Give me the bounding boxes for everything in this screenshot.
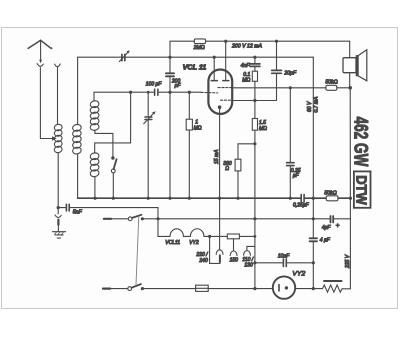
socket 110/130 (244, 246, 255, 255)
switch gang link (136, 216, 139, 284)
svg-text:462 GW: 462 GW (350, 117, 371, 167)
heater VY2 (190, 229, 204, 237)
svg-text:50kΩ: 50kΩ (324, 190, 336, 196)
value 1MOhm (194, 120, 202, 132)
wire pin to ground (57, 225, 59, 232)
svg-text:VY2: VY2 (189, 240, 199, 246)
speaker LS (343, 41, 367, 88)
fuse F1 (196, 285, 209, 291)
resistor R4 1.5MOhm (252, 119, 257, 219)
value 380 Ohm (223, 161, 232, 172)
screen wire from U1 (232, 87, 326, 89)
svg-text:0,25µF: 0,25µF (293, 203, 310, 209)
bottom mains wire (142, 288, 195, 290)
ground jack cup (55, 215, 61, 217)
U1 cathode (218, 105, 222, 198)
label 60V 0.7mA (307, 96, 319, 113)
plug pin bar (219, 255, 221, 262)
U1 grid g2 dashes (218, 87, 232, 89)
wire L4 bottom to bus (94, 177, 96, 199)
svg-text:225 V: 225 V (345, 254, 351, 269)
capacitor 200pF (166, 57, 174, 198)
svg-text:5nF: 5nF (73, 210, 83, 216)
resistor R9 ballast zigzag (313, 281, 343, 292)
svg-text:240: 240 (198, 258, 208, 264)
svg-text:10nF: 10nF (278, 254, 290, 260)
wire L3 bottom to wave switch (95, 130, 113, 157)
U1 anode lead from B+ (223, 41, 229, 80)
chassis bus wire (78, 197, 351, 199)
plug pin in 220/240 (210, 236, 220, 263)
capacitor C4 0.25uF on bus (301, 195, 304, 202)
wire between heaters (183, 235, 190, 237)
antenna socket cup A2 (55, 64, 61, 67)
capacitor 100pF (155, 89, 158, 95)
switch S2a mains (128, 215, 144, 221)
wire riser to 2MOhm (170, 41, 194, 57)
wire 5nF line drop (157, 208, 159, 219)
wire terminal to switch S2a (111, 218, 128, 220)
switch S1 wave-change (111, 156, 116, 173)
coil L3 (90, 100, 100, 131)
capacitor C3 0.25uF coupling (287, 88, 294, 198)
anode wire g3 from U1 (232, 100, 276, 102)
wire L4 top to 100pF node (95, 92, 131, 153)
svg-text:MΩ: MΩ (242, 78, 250, 84)
coil L2 (72, 124, 82, 155)
wire heater to dropper (204, 235, 227, 237)
wire cup A2 down (57, 68, 59, 124)
svg-text:VCL 11: VCL 11 (183, 62, 207, 71)
U1 grid g3 dashes (221, 99, 232, 101)
heater VCL11 (170, 229, 183, 237)
trimmer capacitor C1 (119, 50, 130, 61)
svg-text:0.7 mA: 0.7 mA (313, 96, 319, 113)
mains terminal top (104, 218, 111, 220)
resistor R2 2MOhm (194, 39, 205, 44)
brand box DTW (353, 171, 371, 207)
svg-text:4µF: 4µF (322, 225, 332, 231)
right rail wire (349, 88, 351, 219)
capacitor 4nF (250, 57, 260, 71)
svg-text:+: + (336, 222, 340, 229)
capacitor C6 4uF series (331, 216, 334, 223)
value 110/130 (242, 257, 253, 268)
B+ supply wire 200V (206, 40, 350, 42)
value 1.5MOhm (259, 120, 267, 132)
wire branch to R5 (238, 144, 255, 159)
value 220/240 (195, 252, 208, 264)
svg-text:100 pF: 100 pF (146, 82, 163, 88)
svg-text:60 V: 60 V (307, 101, 313, 112)
value 0.1MOhm (242, 72, 250, 83)
tuned grid wire 100pF line (94, 91, 201, 93)
wire heater drop (158, 219, 170, 237)
value 4uF plus (322, 222, 340, 231)
svg-text:50kΩ: 50kΩ (325, 79, 337, 85)
capacitor 10nF (255, 259, 313, 267)
node L1/5nF junction (57, 206, 60, 209)
coil L1 antenna coil (54, 124, 63, 154)
svg-text:20pF: 20pF (283, 71, 297, 77)
wire fuse to VY2 (208, 288, 273, 290)
svg-text:150: 150 (230, 257, 239, 263)
svg-text:µF: µF (293, 173, 300, 179)
grid top wire (78, 56, 314, 58)
wire VY2 to node (295, 288, 313, 290)
wire right rail lower (343, 219, 350, 289)
wire L2 bottom to chassis bus (77, 154, 79, 199)
wire node to ground jack (57, 208, 59, 214)
U1 grid g1 dashes (201, 91, 218, 94)
U1 grid cap lead 1 (211, 57, 217, 80)
svg-text:4 µF: 4 µF (320, 238, 331, 244)
wire S1 to bus (112, 173, 114, 198)
svg-text:15 mA: 15 mA (214, 149, 220, 164)
wire antenna jack to coil tap (40, 68, 51, 139)
resistor R3 0.1MOhm (252, 71, 257, 118)
value 200pF (171, 78, 181, 89)
wire terminal to switch S2b (110, 288, 128, 290)
svg-text:4nF: 4nF (241, 63, 251, 69)
svg-text:Ω: Ω (225, 166, 229, 172)
svg-text:DTW: DTW (353, 175, 370, 205)
coil L4 feedback (90, 152, 100, 177)
svg-text:VCL11: VCL11 (165, 240, 180, 246)
socket 150 (230, 239, 237, 256)
ground (52, 232, 65, 238)
capacitor 5nF (58, 204, 158, 211)
ground plug pin (57, 220, 59, 225)
tube U2 VY2 rectifier (273, 276, 295, 298)
mains terminal bottom (103, 288, 110, 290)
antenna socket cup A1 (37, 64, 43, 67)
svg-text:MΩ: MΩ (259, 126, 267, 132)
svg-text:2MΩ: 2MΩ (193, 45, 205, 51)
capacitor 30pF (272, 41, 282, 100)
switch S2b mains (128, 284, 144, 290)
screen feed wire down (312, 57, 314, 219)
resistor R1 1MOhm grid leak (186, 92, 192, 198)
resistor R6 50kOhm (326, 85, 350, 90)
svg-text:200 V 12 mA: 200 V 12 mA (231, 43, 263, 49)
svg-text:MΩ: MΩ (194, 126, 202, 132)
socket 220/240 (216, 198, 223, 254)
resistor R5 380 Ohm (235, 159, 241, 198)
resistor R7 50kOhm (326, 196, 338, 201)
svg-text:pF: pF (174, 83, 182, 89)
capacitor C5 4uF electrolytic (310, 219, 317, 289)
arrow tap into coil L1 (52, 136, 57, 140)
variable capacitor C2 tuning (144, 92, 156, 198)
svg-text:VY2: VY2 (292, 270, 305, 277)
svg-text:130: 130 (244, 263, 253, 269)
wire L3 top to tuned grid wire (93, 92, 95, 101)
wire L1 bottom to 5nF node (57, 153, 59, 208)
switched mains wire (142, 218, 350, 220)
selector rail down (254, 219, 256, 289)
wire L2 top to grid line (77, 57, 79, 125)
resistor R8 dropper (227, 234, 255, 239)
value 0.25uF (291, 168, 301, 179)
tube U1 VCL11 envelope (208, 70, 232, 114)
antenna (28, 40, 52, 63)
